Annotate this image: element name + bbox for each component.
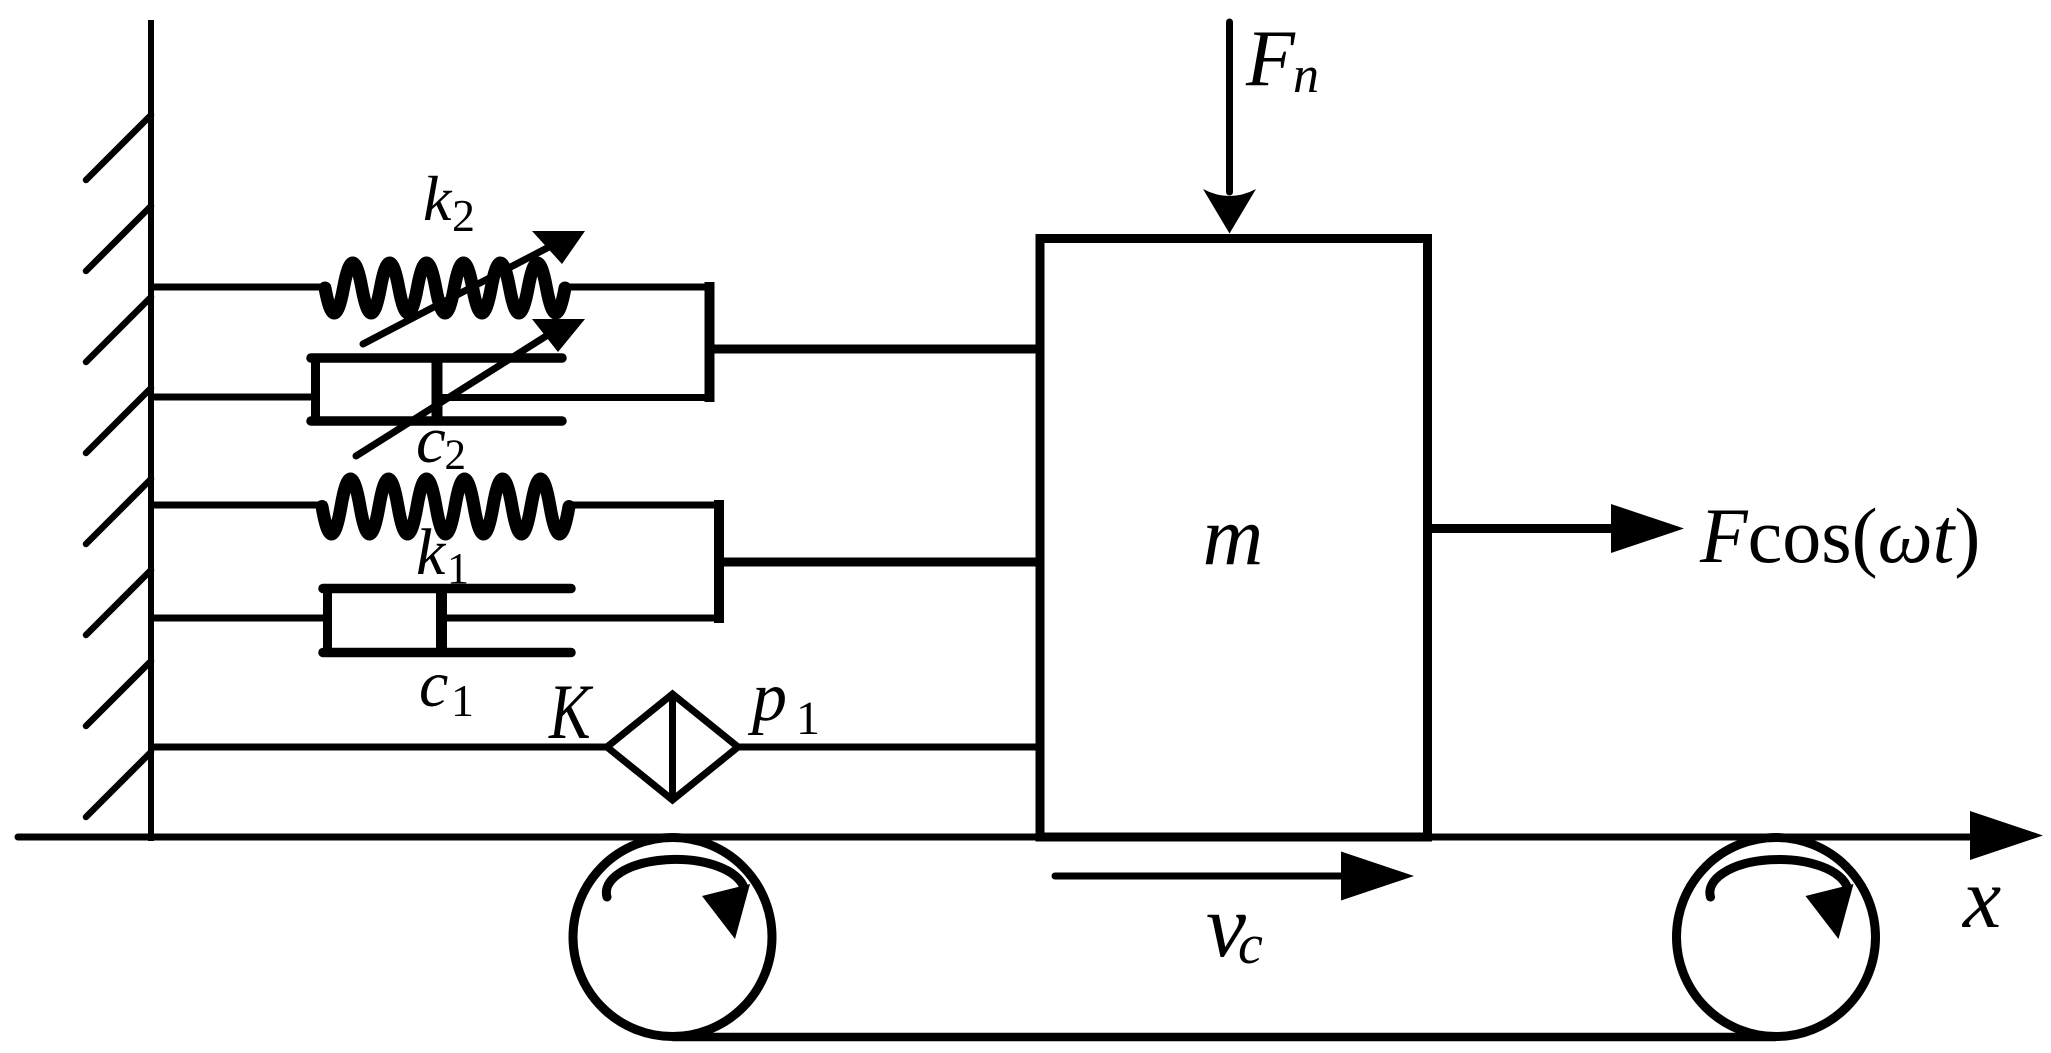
svg-text:k: k — [416, 516, 447, 589]
svg-text:2: 2 — [445, 432, 467, 479]
svg-text:1: 1 — [451, 675, 474, 726]
svg-text:c: c — [416, 403, 446, 477]
svg-text:K: K — [548, 670, 594, 756]
svg-text:c: c — [419, 648, 448, 721]
svg-text:n: n — [1293, 47, 1319, 104]
svg-text:x: x — [1961, 850, 2001, 946]
svg-text:F: F — [1245, 15, 1296, 103]
svg-text:2: 2 — [452, 190, 475, 241]
svg-text:Fcos(ωt): Fcos(ωt) — [1699, 492, 1980, 579]
svg-text:1: 1 — [447, 544, 469, 593]
svg-text:k: k — [423, 163, 453, 234]
svg-text:p: p — [747, 659, 787, 736]
svg-text:c: c — [1238, 914, 1263, 976]
svg-text:1: 1 — [796, 692, 820, 745]
svg-text:m: m — [1203, 490, 1264, 583]
